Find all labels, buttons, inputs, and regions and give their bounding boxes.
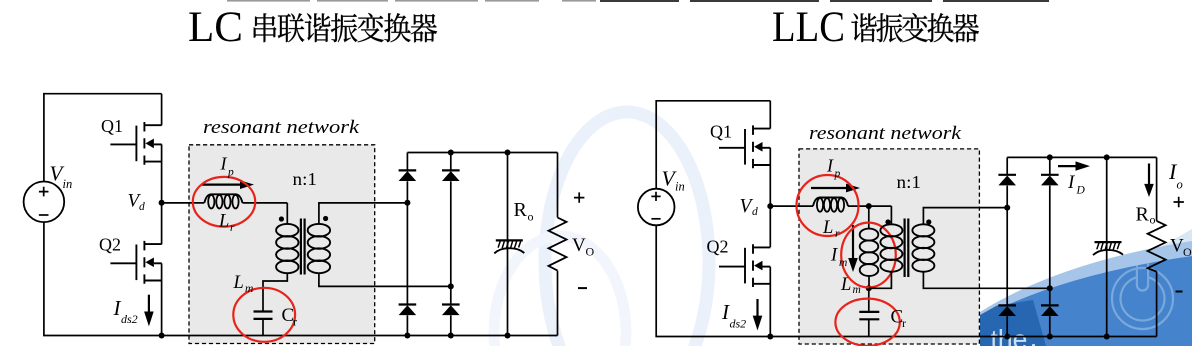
svg-text:ds2: ds2 (730, 316, 747, 330)
svg-text:V: V (572, 235, 586, 256)
svg-text:I: I (826, 156, 834, 176)
svg-text:I: I (830, 246, 838, 266)
svg-text:o: o (1150, 213, 1156, 227)
svg-text:r: r (902, 316, 906, 330)
svg-text:R: R (514, 199, 528, 221)
svg-text:r: r (230, 222, 235, 234)
svg-text:Q1: Q1 (101, 116, 123, 136)
svg-text:L: L (840, 275, 851, 295)
svg-text:resonant network: resonant network (203, 117, 360, 138)
svg-text:L: L (822, 218, 833, 238)
svg-text:Q2: Q2 (707, 237, 729, 257)
svg-text:o: o (1177, 178, 1183, 192)
svg-text:r: r (293, 315, 297, 329)
svg-text:R: R (1136, 204, 1150, 226)
svg-text:r: r (835, 228, 840, 240)
svg-text:n:1: n:1 (293, 169, 318, 189)
svg-text:V: V (1170, 236, 1184, 257)
svg-text:p: p (834, 168, 841, 180)
svg-text:D: D (1076, 185, 1086, 197)
svg-text:resonant network: resonant network (809, 123, 962, 144)
svg-text:L: L (233, 273, 244, 293)
svg-text:d: d (139, 201, 145, 213)
svg-text:n:1: n:1 (897, 172, 922, 192)
svg-text:in: in (675, 180, 685, 194)
svg-text:ds2: ds2 (121, 312, 138, 326)
svg-text:I: I (220, 154, 228, 174)
svg-text:LC: LC (188, 4, 243, 51)
svg-text:L: L (218, 212, 229, 232)
svg-text:m: m (245, 283, 253, 295)
svg-text:o: o (528, 210, 534, 224)
svg-text:d: d (752, 206, 758, 218)
svg-text:m: m (839, 257, 847, 269)
svg-text:LLC: LLC (772, 4, 845, 51)
svg-text:in: in (63, 177, 73, 191)
svg-text:O: O (1183, 245, 1192, 259)
svg-text:Q2: Q2 (99, 235, 121, 255)
svg-text:p: p (227, 167, 234, 179)
svg-text:m: m (853, 284, 861, 296)
svg-text:O: O (586, 245, 595, 259)
svg-text:Q1: Q1 (710, 122, 732, 142)
